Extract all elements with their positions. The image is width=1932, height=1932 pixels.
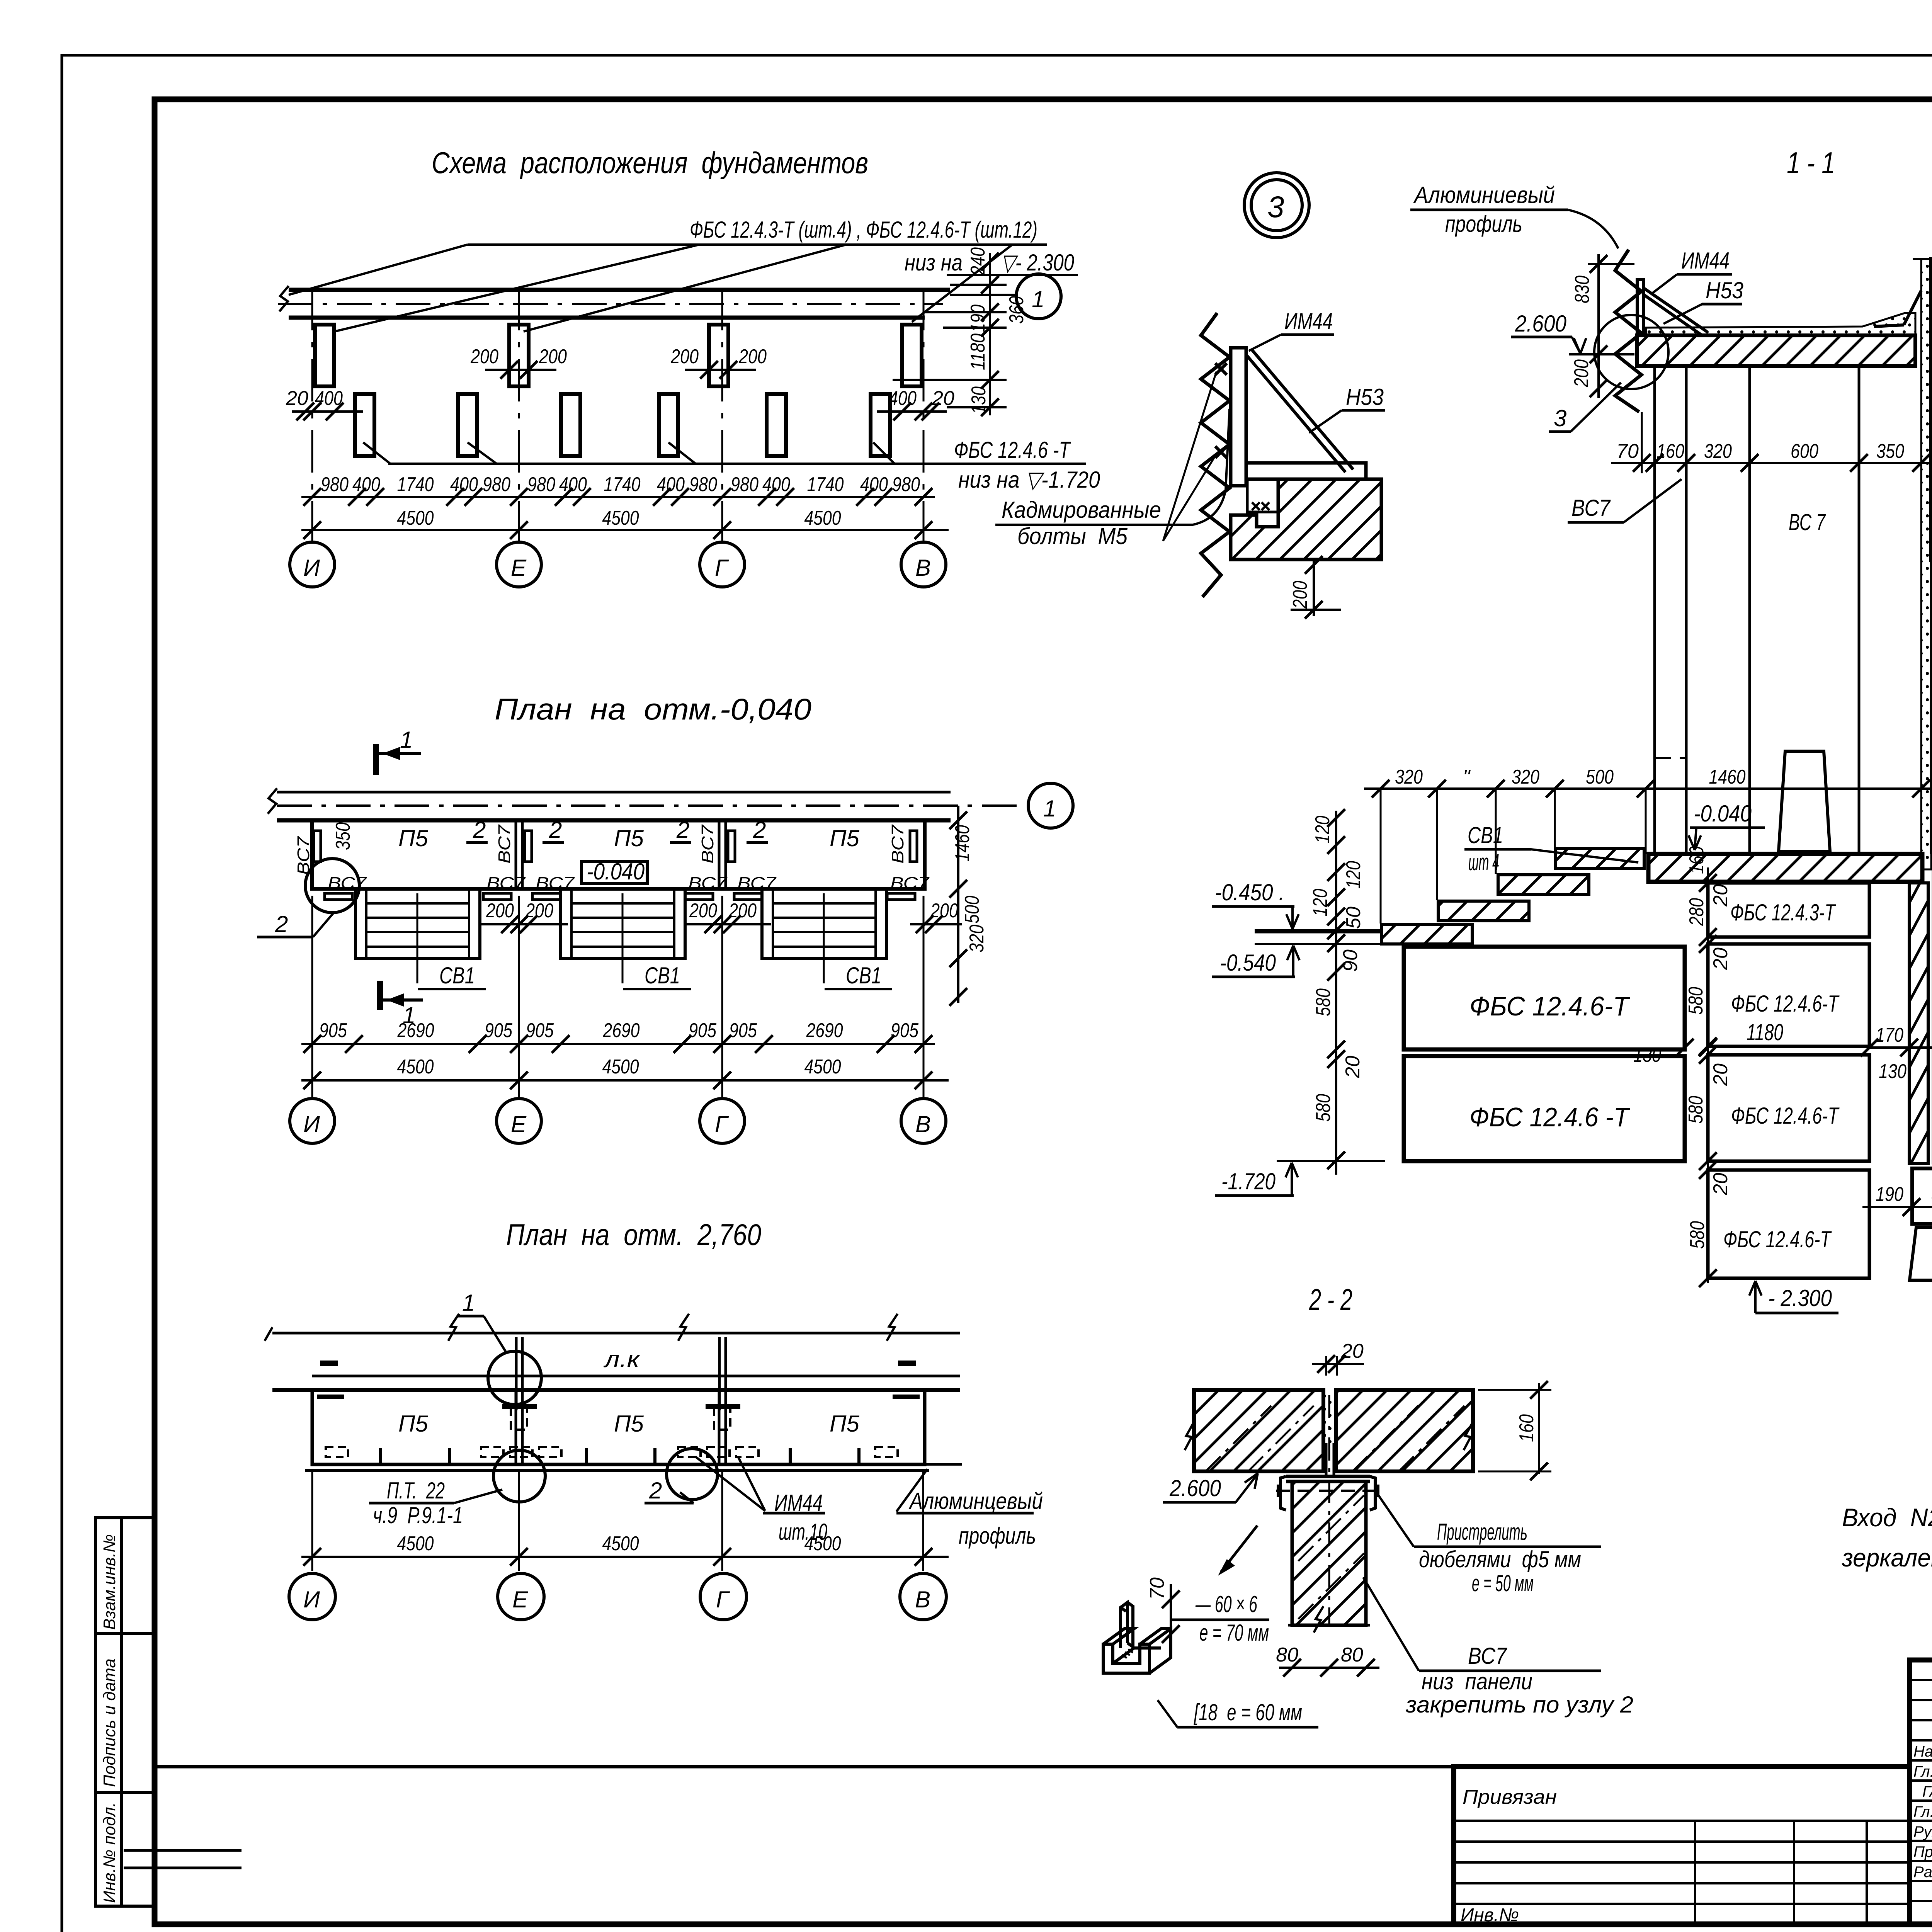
svg-text:ФБС 12.4.6 -Т: ФБС 12.4.6 -Т [954,437,1071,463]
stair slab 3 [1438,901,1529,921]
svg-text:ИМ44: ИМ44 [1284,308,1333,334]
IM44 vertical plate [1231,348,1246,486]
panel joint at Г [718,820,721,889]
corner mark И [317,1395,344,1399]
svg-text:И: И [303,1587,320,1612]
dashed bolt line [1276,1490,1380,1492]
svg-text:400: 400 [657,473,685,496]
svg-text:400: 400 [860,473,888,496]
svg-text:П5: П5 [398,1411,428,1437]
bottom-left small frame table [124,1850,241,1868]
svg-text:П5: П5 [398,825,428,851]
svg-text:ч.9 Р.9.1-1: ч.9 Р.9.1-1 [373,1502,463,1528]
axis extension lines [311,896,313,1099]
svg-text:4500: 4500 [397,1532,434,1555]
H53 angle horizontal leg [1246,463,1366,479]
svg-text:4500: 4500 [397,507,434,529]
svg-text:400: 400 [559,473,587,496]
left wall edge lines [1653,366,1656,854]
dim chain 320/320/500/1460/300/100 [1395,766,1932,788]
svg-text:20: 20 [1709,947,1732,970]
FBS 12.4.3 block at В [902,325,922,386]
wall lower line [277,818,951,823]
right slab [1336,1390,1473,1471]
panel bottom double line [305,1469,929,1472]
svg-text:980: 980 [731,473,759,496]
svg-text:ВС7: ВС7 [698,824,717,864]
joint double lines [515,1390,517,1464]
svg-text:Кадмированные: Кадмированные [1002,497,1161,523]
dim 4500 texts [397,507,841,529]
wall left break [268,788,277,814]
svg-text:2: 2 [649,1478,662,1503]
svg-text:Инв.№ подл.: Инв.№ подл. [100,1802,119,1903]
dim line chain1 [301,496,935,498]
left stamp boxes [95,1518,153,1906]
svg-text:200: 200 [689,900,717,922]
svg-text:190: 190 [1876,1183,1903,1206]
lintel block [1931,259,1932,335]
aluminium profile zigzag [1201,313,1230,597]
svg-text:Инв.№: Инв.№ [1461,1905,1519,1925]
svg-text:400: 400 [450,473,478,496]
big arrow to node 2 [1221,1526,1257,1572]
svg-text:3: 3 [1554,405,1566,431]
svg-text:280: 280 [1685,898,1708,926]
svg-text:ФБС 12.4.6-Т: ФБС 12.4.6-Т [1731,991,1840,1017]
svg-text:Пристрелить: Пристрелить [1437,1519,1527,1545]
svg-text:400: 400 [889,387,917,410]
svg-text:шт 4: шт 4 [1468,849,1499,875]
joint dim line 170/250/130 [1869,1046,1932,1049]
svg-text:План на отм. 2,760: План на отм. 2,760 [506,1218,761,1252]
dim 70 [1170,1584,1172,1647]
corner mark В [893,1395,920,1399]
svg-text:План на отм.-0,040: План на отм.-0,040 [495,692,811,726]
svg-text:1740: 1740 [604,473,641,496]
svg-text:Г: Г [715,1111,729,1137]
bracket hooks [1281,1476,1286,1510]
foundation top slab [1648,854,1922,882]
section mark 1 top [376,727,421,775]
svg-text:2: 2 [549,817,562,843]
FBS 12.4.6 row2 blocks [355,394,374,456]
svg-text:200: 200 [525,900,553,922]
channel 3D sketch [1103,1602,1171,1673]
svg-text:20: 20 [286,387,308,410]
svg-text:И: И [303,1111,320,1137]
svg-text:160: 160 [1515,1414,1538,1442]
svg-text:200: 200 [1570,359,1593,388]
svg-text:ФБС 12.4.6-Т: ФБС 12.4.6-Т [1469,991,1630,1021]
svg-text:": " [1463,766,1471,788]
porch step trapezoid [1779,751,1830,851]
svg-text:980: 980 [527,473,555,496]
axis circle 1 [1016,274,1061,319]
bottom edge ticks [379,1448,382,1464]
TITLEBLOCK [155,1660,1932,1932]
axis line Е [518,288,520,543]
fbs left block 2 [1404,1056,1685,1161]
axis circle Г [700,542,745,587]
T bracket plate [1286,1475,1370,1478]
column hatched [1292,1481,1366,1625]
svg-text:дюбелями ф5 мм: дюбелями ф5 мм [1419,1546,1581,1572]
svg-text:500: 500 [961,896,983,923]
svg-text:980: 980 [483,473,510,496]
svg-text:580: 580 [1312,1094,1335,1122]
flashing sloped [1643,288,1707,332]
svg-text:2.600: 2.600 [1169,1475,1221,1501]
callout circle 2 [667,1449,718,1500]
svg-text:580: 580 [1686,1221,1709,1249]
dim chain 905/2690 [319,1019,919,1042]
wall axis dash-dot line 1 [278,303,943,305]
right dim column [989,253,991,415]
node 2 callout circle [305,859,359,913]
svg-text:Рук.гр.: Рук.гр. [1913,1823,1932,1840]
svg-text:350: 350 [332,822,354,850]
joint detail at Г [718,1337,721,1410]
lintel top break [1913,234,1932,259]
svg-text:В: В [915,1111,931,1137]
axis line Г [721,288,723,543]
svg-text:- 2.300: - 2.300 [1768,1285,1832,1311]
bolt M5 top [1215,363,1227,375]
svg-text:4500: 4500 [602,1532,639,1555]
svg-text:360: 360 [1005,296,1028,324]
right wall seam dotted strip [1921,259,1931,869]
svg-text:4500: 4500 [804,1532,841,1555]
svg-text:-0.450 .: -0.450 . [1215,879,1284,905]
svg-text:И: И [303,555,320,581]
panels band [312,1390,925,1464]
stair risers [1471,926,1473,944]
svg-text:130: 130 [1879,1060,1906,1083]
svg-text:1740: 1740 [807,473,844,496]
svg-text:Е: Е [511,555,527,581]
lk line [312,1375,960,1378]
svg-text:980: 980 [689,473,717,496]
svg-text:160: 160 [1656,440,1684,463]
svg-text:-0.040: -0.040 [1694,801,1752,827]
svg-text:Гл.конст: Гл.конст [1913,1763,1932,1780]
stair flight 1 [355,889,486,989]
axis circle 1 [1028,783,1073,828]
svg-text:20: 20 [1709,1063,1732,1086]
svg-text:580: 580 [1685,1096,1707,1124]
centre dashline [1328,1395,1330,1627]
FBS 12.4.3 block at Е [509,325,529,386]
svg-text:-0.040: -0.040 [587,859,645,884]
svg-text:200: 200 [486,900,514,922]
svg-text:2690: 2690 [397,1019,434,1042]
svg-text:ВС7: ВС7 [688,874,728,893]
panel joint at Е [515,820,517,889]
svg-text:e = 50 мм: e = 50 мм [1472,1570,1534,1596]
svg-text:905: 905 [319,1019,347,1042]
node 1 callout circle [488,1351,541,1405]
svg-text:Е: Е [511,1111,527,1137]
wall axis dashdot [277,804,1022,807]
svg-text:20: 20 [1709,1173,1732,1196]
node 3 callout circle on section [1594,315,1668,389]
svg-text:980: 980 [892,473,920,496]
svg-text:4500: 4500 [804,507,841,529]
svg-text:ВС7: ВС7 [486,874,526,893]
BC7 column lines [1748,366,1751,854]
axis extensions [311,1470,313,1571]
grout pad with x marks [1247,479,1278,512]
svg-text:Взам.инв.№: Взам.инв.№ [100,1534,119,1630]
wall bottom line [272,1388,960,1392]
axis circle Е [497,542,541,587]
H53 diagonal brace [1251,349,1353,469]
svg-text:1: 1 [1032,286,1044,312]
svg-text:120: 120 [1342,861,1365,889]
svg-text:Нач.АПМ-1: Нач.АПМ-1 [1913,1743,1932,1760]
svg-text:200: 200 [930,900,958,922]
svg-text:320: 320 [1395,766,1423,788]
svg-text:90: 90 [1339,949,1362,972]
svg-text:Г: Г [716,1587,730,1612]
svg-text:Схема расположения фундамент: Схема расположения фундаментов [432,146,868,180]
svg-text:Вход N2 (по оси 12): Вход N2 (по оси 12) [1842,1503,1932,1532]
svg-text:e = 70 мм: e = 70 мм [1199,1620,1269,1646]
svg-text:200: 200 [670,345,699,368]
svg-text:Е: Е [512,1587,528,1612]
svg-text:1: 1 [1043,796,1056,821]
svg-text:905: 905 [485,1019,513,1042]
joint detail at Е [515,1337,518,1410]
dim chain 70/160/320/600/350 [1616,440,1904,463]
axis circles [290,1099,335,1143]
dim chain 4500 [397,1056,841,1078]
svg-text:400: 400 [762,473,790,496]
axis circles [289,1573,335,1620]
stair slab 2 [1498,875,1589,895]
svg-text:4500: 4500 [397,1056,434,1078]
dim 200 node3 [1313,561,1315,616]
svg-text:Привязан: Привязан [1463,1786,1557,1808]
joint stem plates [1325,1443,1328,1476]
svg-text:190: 190 [967,304,989,332]
svg-text:ВС7: ВС7 [1468,1643,1507,1669]
dim column 830/200 [1597,254,1600,398]
wall top line [289,288,950,292]
bolt M5 bottom [1215,446,1227,458]
svg-text:П5: П5 [614,1411,644,1437]
dim chain row 980/400/1740 [321,473,920,496]
waterproof strip [1909,883,1928,1163]
svg-text:200: 200 [470,345,498,368]
dim 160 right [1538,1383,1540,1474]
svg-text:50: 50 [1342,906,1365,929]
mid column dim ticks [1707,867,1709,1283]
svg-text:-0.540: -0.540 [1220,950,1276,976]
svg-text:240: 240 [967,247,989,276]
staff rows text [1913,1743,1932,1881]
fbs mid block D [1708,1170,1869,1278]
svg-text:2690: 2690 [806,1019,843,1042]
svg-text:4500: 4500 [804,1056,841,1078]
svg-text:1: 1 [400,727,413,753]
svg-text:ФБС 12.4.6 -Т: ФБС 12.4.6 -Т [1469,1102,1630,1132]
svg-text:закрепить по узлу 2: закрепить по узлу 2 [1405,1692,1633,1718]
svg-text:болты М5: болты М5 [1017,523,1128,549]
svg-text:ГАП: ГАП [1922,1783,1932,1800]
svg-text:ИМ44: ИМ44 [1681,248,1730,274]
svg-text:СВ1: СВ1 [846,963,881,988]
wall left break [279,286,289,311]
svg-text:20: 20 [1341,1340,1364,1362]
svg-text:1460: 1460 [1709,766,1746,788]
svg-text:20: 20 [1342,1056,1364,1078]
svg-text:350: 350 [1876,440,1904,463]
panels row [312,820,925,889]
axis line В [923,288,925,543]
svg-text:320: 320 [1704,440,1732,463]
svg-text:2: 2 [275,911,288,937]
svg-text:1: 1 [462,1290,475,1316]
fbs mid block C [1708,1055,1869,1161]
jamb block below slab [1931,337,1932,560]
svg-text:3: 3 [1267,190,1284,224]
stair slab 1 [1556,849,1644,868]
svg-text:905: 905 [526,1019,554,1042]
svg-text:4500: 4500 [602,1056,639,1078]
svg-text:2: 2 [753,817,766,843]
svg-text:ВС 7: ВС 7 [1789,509,1826,535]
svg-text:1180: 1180 [1747,1019,1783,1045]
svg-text:ФБС 12.4.6-Т: ФБС 12.4.6-Т [1723,1226,1832,1252]
svg-text:2: 2 [676,817,689,843]
concrete landing hatched [1231,479,1381,560]
wall bottom line [289,316,925,320]
svg-text:170: 170 [1876,1024,1903,1046]
svg-text:160: 160 [1685,846,1708,874]
fbs mid block A [1708,883,1869,937]
svg-text:70: 70 [1616,440,1639,463]
svg-text:400: 400 [352,473,380,496]
svg-text:СВ1: СВ1 [645,963,680,988]
staff table grid [1910,1660,1932,1924]
svg-text:В: В [915,1587,930,1612]
svg-text:905: 905 [891,1019,919,1042]
svg-text:320: 320 [966,925,988,952]
svg-text:П5: П5 [830,825,859,851]
floor slab hatched [1637,335,1915,366]
title block outline [1910,1660,1932,1924]
svg-text:Гл.спец.: Гл.спец. [1913,1803,1932,1820]
svg-text:1460: 1460 [951,825,974,862]
axis circle В [901,542,946,587]
svg-text:2 - 2: 2 - 2 [1309,1282,1352,1316]
svg-text:Н53: Н53 [1346,384,1384,410]
svg-text:320: 320 [1512,766,1539,788]
FBS 12.4.3 block at И [315,325,334,386]
door reveal lines [1930,560,1932,688]
svg-text:200: 200 [539,345,567,368]
svg-text:П5: П5 [830,1411,859,1437]
joint dotted fill [1325,1391,1335,1443]
sill flashing [1874,325,1904,327]
svg-text:2.600: 2.600 [1515,311,1566,337]
svg-text:600: 600 [1791,440,1818,463]
svg-text:ВС7: ВС7 [890,874,930,893]
svg-text:200: 200 [738,345,767,368]
foundation beam [1912,1168,1932,1224]
svg-text:2690: 2690 [603,1019,640,1042]
svg-text:1 - 1: 1 - 1 [1787,146,1835,180]
svg-text:низ на: низ на [905,250,963,276]
svg-text:130: 130 [968,386,990,414]
svg-text:580: 580 [1685,987,1707,1015]
node circle 3 [1244,173,1309,238]
svg-text:2: 2 [473,817,486,843]
stair flight 3 [762,889,892,989]
svg-text:580: 580 [1312,988,1335,1016]
ВС7 bottom plates [325,874,930,900]
wall upper line [277,791,951,794]
line to axis circle 1 [950,294,1015,296]
axis line И [311,288,313,543]
right dim column [957,806,959,1003]
svg-text:профиль: профиль [1445,211,1522,237]
svg-text:В: В [915,555,931,581]
stair slab 4 [1381,924,1472,944]
bolt leader lines [1163,372,1216,541]
svg-text:120: 120 [1311,816,1334,844]
svg-text:ВС7: ВС7 [1571,495,1611,521]
svg-text:905: 905 [689,1019,717,1042]
svg-text:ФБС 12.4.6-Т: ФБС 12.4.6-Т [1731,1103,1840,1129]
svg-text:ФБС 12.4.3-Т: ФБС 12.4.3-Т [1730,900,1836,925]
svg-text:Н53: Н53 [1706,277,1743,303]
stair flight 2 [561,889,691,989]
svg-text:П.Т. 22: П.Т. 22 [387,1478,445,1503]
svg-text:Подпись и дата: Подпись и дата [100,1658,119,1787]
svg-text:[18 e = 60 мм: [18 e = 60 мм [1194,1699,1302,1725]
attachment cell Привязан [1454,1786,1910,1925]
svg-text:низ на ▽-1.720: низ на ▽-1.720 [958,467,1100,493]
svg-text:200: 200 [728,900,757,922]
svg-text:ФБС 12.4.3-Т (шт.4) , ФБС 12.4: ФБС 12.4.3-Т (шт.4) , ФБС 12.4.6-Т (шт.1… [690,217,1037,243]
svg-text:ВС7: ВС7 [495,824,514,864]
svg-text:Алюминиевый: Алюминиевый [1413,182,1555,208]
svg-text:▽- 2.300: ▽- 2.300 [1001,250,1074,276]
svg-text:л.к: л.к [604,1346,641,1372]
svg-text:— 60 × 6: — 60 × 6 [1195,1591,1257,1617]
screed dotted band [1646,313,1915,335]
fbs left block 1 [1404,947,1685,1049]
svg-text:905: 905 [729,1019,757,1042]
svg-text:Провер.: Провер. [1913,1844,1932,1861]
dim chain 4500 [397,1532,841,1555]
bottom dashed IM44 brackets [326,1447,898,1457]
svg-text:120: 120 [1309,889,1332,917]
svg-text:1740: 1740 [397,473,434,496]
svg-text:профиль: профиль [959,1523,1036,1549]
section mark 1 bottom [380,981,423,1028]
svg-text:низ панели: низ панели [1422,1668,1532,1694]
svg-text:ВС7: ВС7 [888,824,907,864]
svg-text:200: 200 [1289,581,1311,609]
svg-text:20: 20 [1709,884,1732,907]
svg-text:Алюминцевый: Алюминцевый [908,1488,1043,1514]
svg-text:70: 70 [1146,1577,1168,1600]
elevation box -0.040 [582,862,647,883]
